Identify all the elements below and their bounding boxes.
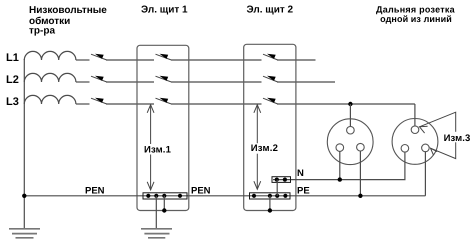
junction: bond dot on panel 1 bottom bbox=[162, 208, 166, 212]
label Изм.3 bbox=[443, 132, 473, 144]
wire: panel 2 bus to enclosure bond bbox=[269, 196, 271, 211]
wire: neutral point vertical down to PEN and ground bbox=[23, 59, 25, 228]
label Изм.1 bbox=[143, 144, 173, 156]
switch QF3 (L3 in panel 1) bbox=[156, 98, 172, 104]
wire: L3 drop to socket 1 top contact bbox=[349, 104, 351, 126]
socket XS1 phase contact bbox=[347, 126, 355, 134]
wire: N line from panel 2 to socket 2 bbox=[273, 152, 405, 180]
label Изм.2 bbox=[250, 143, 280, 154]
enclosure: panel 1 box bbox=[137, 45, 189, 210]
junction: socket 1 N tap bbox=[338, 177, 342, 181]
svg-text:PEN: PEN bbox=[85, 186, 105, 197]
switch QS2 (L2 at transformer) bbox=[91, 76, 107, 82]
junction: socket 1 PE tap bbox=[358, 194, 362, 198]
switch QF4 (L1 in panel 2) bbox=[263, 54, 278, 60]
switch QF5 (L2 in panel 2) bbox=[263, 76, 278, 82]
wire L1 segments bbox=[76, 59, 316, 61]
svg-text:тр-ра: тр-ра bbox=[29, 26, 55, 37]
svg-text:одной из линий: одной из линий bbox=[380, 14, 452, 24]
switch QF2 (L2 in panel 1) bbox=[156, 76, 172, 82]
switch QS1 (L1 at transformer) bbox=[91, 54, 107, 60]
socket XS2 PE contact bbox=[422, 144, 430, 152]
wire: PEN / PE horizontal run bbox=[24, 195, 425, 197]
svg-text:N: N bbox=[297, 168, 304, 179]
socket XS2 outline bbox=[392, 118, 438, 164]
wire L2 segments bbox=[76, 81, 335, 83]
svg-text:Эл. щит 2: Эл. щит 2 bbox=[247, 4, 294, 15]
junction: bond dot on panel 2 bottom bbox=[268, 208, 272, 212]
wire: panel 1 earthing conductor bbox=[155, 196, 157, 229]
wire: socket 1 N drop bbox=[339, 151, 341, 179]
svg-text:Эл. щит 1: Эл. щит 1 bbox=[141, 4, 188, 15]
socket XS1 outline bbox=[327, 119, 373, 165]
winding W1 (phase L1) bbox=[24, 51, 76, 60]
header label: transformer windings bbox=[29, 5, 107, 37]
wire L3 segments bbox=[76, 103, 415, 105]
switch QF6 (L3 in panel 2) bbox=[263, 98, 278, 104]
junction: L3 tap to socket 1 bbox=[348, 102, 352, 106]
ground: transformer earth electrode bbox=[9, 229, 40, 238]
bus: PE bus bar in panel 2 bbox=[250, 193, 291, 199]
socket XS2 neutral contact bbox=[401, 145, 409, 153]
measurement bracket Изм.3 (probes on socket 2) bbox=[420, 112, 456, 158]
wire: L3 drop to socket 2 top contact bbox=[414, 104, 416, 126]
svg-text:L3: L3 bbox=[6, 96, 19, 108]
wire: N-PE jumper in panel 2 bbox=[276, 180, 278, 196]
bus: PEN bus bar in panel 1 bbox=[143, 193, 187, 199]
socket XS1 PE contact bbox=[357, 143, 365, 151]
svg-text:Дальняя розетка: Дальняя розетка bbox=[376, 4, 456, 14]
svg-text:Изм.3: Изм.3 bbox=[444, 133, 471, 144]
enclosure: panel 2 box bbox=[244, 44, 296, 210]
socket XS2 phase contact bbox=[411, 126, 419, 134]
winding W2 (phase L2) bbox=[24, 73, 76, 82]
measurement arrow Изм.1 bbox=[147, 105, 154, 190]
svg-text:PE: PE bbox=[297, 186, 310, 197]
switch QS3 (L3 at transformer) bbox=[91, 98, 107, 104]
svg-text:Изм.2: Изм.2 bbox=[251, 143, 279, 154]
switch QF1 (L1 in panel 1) bbox=[156, 54, 172, 60]
svg-text:L2: L2 bbox=[6, 74, 19, 86]
junction: PEN at transformer neutral bbox=[22, 194, 26, 198]
bus: N bus bar in panel 2 bbox=[272, 177, 291, 183]
svg-text:Низковольтные: Низковольтные bbox=[29, 5, 107, 16]
wire: socket 1 PE drop bbox=[359, 151, 361, 196]
wire: socket 2 PE drop bbox=[424, 152, 426, 196]
measurement arrow Изм.2 bbox=[254, 105, 261, 189]
socket XS1 neutral contact bbox=[336, 144, 344, 152]
svg-text:PEN: PEN bbox=[191, 186, 211, 197]
svg-text:L1: L1 bbox=[6, 52, 19, 64]
ground: panel 1 earth electrode bbox=[141, 229, 172, 238]
wire: panel 1 bus to enclosure bond bbox=[163, 196, 165, 211]
winding W3 (phase L3) bbox=[24, 95, 76, 104]
svg-text:Изм.1: Изм.1 bbox=[144, 145, 172, 156]
header label: far socket bbox=[376, 4, 456, 24]
